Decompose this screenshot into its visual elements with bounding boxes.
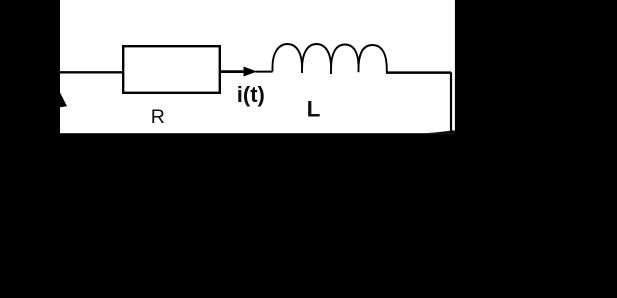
svg-text:R: R — [151, 106, 165, 128]
svg-text:i(t): i(t) — [237, 82, 265, 107]
svg-text:L: L — [307, 96, 321, 121]
